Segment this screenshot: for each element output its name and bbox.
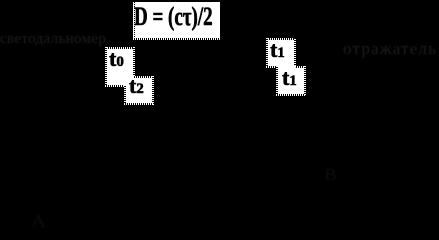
box t1 upper hatch border top	[266, 38, 295, 40]
box t0 hatch border bottom	[105, 85, 124, 87]
box t1 lower hatch border left	[276, 67, 278, 95]
point label A	[31, 211, 46, 232]
box t2 hatch border right	[152, 76, 154, 105]
text t1 lower	[282, 65, 297, 91]
box t0	[105, 47, 134, 87]
box t1 upper hatch border right	[294, 38, 296, 66]
box t1 lower hatch border right	[304, 66, 306, 95]
formula box hatch border bottom	[133, 38, 220, 40]
box t1 lower	[276, 66, 305, 95]
box t2 hatch border top	[133, 76, 153, 78]
point label B	[324, 165, 337, 185]
label otrazhatel (reflector)	[343, 39, 437, 59]
box t0 hatch border left	[105, 47, 107, 86]
box t1 upper hatch border left	[266, 38, 268, 67]
text t1 upper	[270, 37, 285, 63]
box t2	[124, 76, 153, 105]
text t2	[129, 73, 144, 99]
formula text D = (ct)/2	[134, 2, 213, 32]
formula box D = (ct)/2	[133, 2, 220, 38]
box t2 hatch border left	[124, 86, 126, 104]
label svetodalnomer (rangefinder)	[0, 31, 106, 48]
box t1 upper hatch border bottom	[266, 66, 276, 68]
box t1 lower hatch border bottom	[276, 94, 305, 96]
box t1 lower hatch border top	[295, 66, 305, 68]
box t1 upper	[266, 38, 295, 67]
text t0	[109, 46, 124, 72]
box t0 hatch border top	[105, 47, 134, 49]
formula box hatch border left	[134, 2, 135, 38]
box t0 hatch border right	[133, 47, 135, 76]
box t2 hatch border bottom	[124, 103, 153, 105]
